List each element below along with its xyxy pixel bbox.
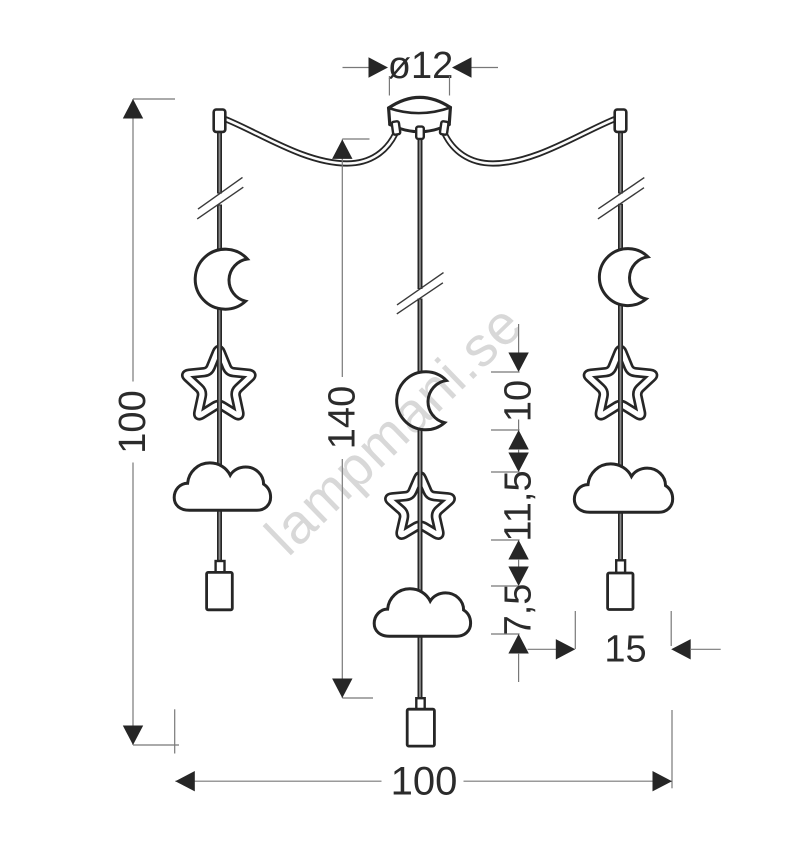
- svg-text:11,5: 11,5: [498, 470, 540, 541]
- cord grip right: [615, 110, 627, 132]
- cloud left: [174, 463, 270, 510]
- svg-text:7,5: 7,5: [498, 584, 540, 637]
- svg-text:15: 15: [604, 629, 646, 671]
- dimension 11,5: [518, 449, 520, 453]
- svg-text:100: 100: [112, 390, 154, 453]
- dimension 10: [518, 324, 520, 353]
- cord grip left: [214, 110, 226, 132]
- wire swoop right: [445, 119, 616, 164]
- canopy grommet center: [416, 127, 424, 139]
- svg-text:ø12: ø12: [388, 45, 453, 87]
- dimension dia12: [343, 67, 371, 69]
- socket center: [416, 698, 424, 709]
- break symbol left: [198, 177, 243, 209]
- moon left: [195, 249, 247, 309]
- socket right: [616, 560, 625, 573]
- break symbol center: [397, 273, 444, 305]
- dimension 100 bottom: [174, 709, 176, 753]
- dimension 100 left: [132, 99, 134, 382]
- wire swoop left: [225, 119, 396, 164]
- dimension 7,5: [518, 559, 520, 567]
- cloud center: [374, 589, 470, 636]
- dimension 15: [528, 648, 558, 650]
- wire center cord: [418, 136, 423, 289]
- dimension 140: [341, 139, 343, 377]
- wire left cord: [217, 131, 222, 194]
- wire right cord: [618, 132, 623, 194]
- socket left: [216, 561, 225, 572]
- star center: [389, 476, 450, 534]
- moon right: [599, 249, 648, 306]
- svg-text:100: 100: [391, 760, 458, 804]
- star right: [588, 350, 653, 415]
- cloud right: [574, 464, 672, 512]
- break symbol right: [598, 178, 644, 209]
- ceiling canopy: [389, 97, 451, 131]
- canopy grommet left: [392, 121, 401, 135]
- canopy grommet right: [440, 121, 449, 135]
- svg-text:10: 10: [498, 380, 540, 422]
- moon center: [397, 372, 447, 430]
- star left: [186, 350, 251, 415]
